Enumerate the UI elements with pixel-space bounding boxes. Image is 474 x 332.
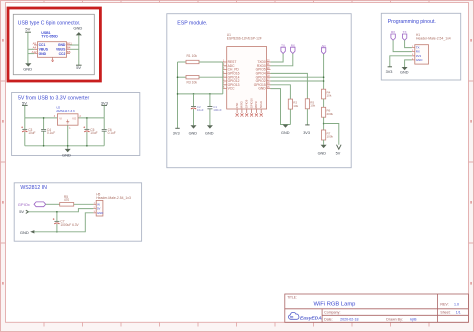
svg-text:USB type C 6pin connector.: USB type C 6pin connector. — [18, 20, 81, 26]
svg-text:200k: 200k — [327, 112, 334, 116]
frame ticks top — [44, 1, 429, 3]
svg-text:GND: GND — [318, 151, 327, 155]
resistor R6 200k — [322, 107, 326, 117]
wire gnd to header — [34, 213, 93, 232]
svg-text:ESP8266-12F/ESP-12F: ESP8266-12F/ESP-12F — [227, 37, 262, 41]
svg-text:GPIO9: GPIO9 — [245, 99, 249, 108]
regulator pin name GND — [66, 120, 69, 124]
svg-text:EasyEDA: EasyEDA — [300, 316, 322, 322]
ground GND under R7 — [321, 145, 327, 148]
power flag 5V esp — [337, 145, 342, 150]
svg-text:R1 10k: R1 10k — [187, 54, 198, 58]
wire ground rail — [25, 145, 104, 147]
svg-text:ESP module.: ESP module. — [177, 20, 207, 26]
power flag 3V3 prog — [388, 66, 392, 68]
svg-text:GND: GND — [205, 132, 214, 136]
wire vcc horizontal — [178, 93, 223, 95]
wire gpio2 to divider — [271, 80, 324, 82]
resistor R5 10k pullup — [305, 99, 309, 109]
svg-text:GND: GND — [73, 26, 82, 31]
capacitor C3 — [24, 118, 26, 146]
frame row letters — [470, 39, 472, 42]
svg-text:0.1uF: 0.1uF — [47, 131, 55, 135]
svg-text:1000uF 6.3V: 1000uF 6.3V — [60, 223, 79, 227]
wire 5V down — [24, 105, 26, 118]
programming section box — [381, 13, 460, 80]
junction dots esp left — [177, 76, 179, 78]
frame ticks bottom — [44, 322, 429, 326]
svg-text:GND: GND — [400, 71, 409, 75]
svg-text:1/1: 1/1 — [456, 311, 461, 315]
header pin stubs — [93, 204, 96, 213]
svg-text:Drawn By:: Drawn By: — [386, 318, 403, 322]
svg-text:3V3: 3V3 — [386, 70, 393, 74]
title block column divider rev/sheet — [437, 294, 439, 322]
svg-text:GND: GND — [20, 230, 29, 235]
svg-text:REV:: REV: — [440, 302, 448, 306]
pin stubs left — [34, 45, 37, 54]
chip left pin stubs — [223, 62, 227, 89]
svg-text:SCLK: SCLK — [259, 101, 263, 108]
capacitor C7 1000uF — [56, 212, 58, 232]
svg-text:5V: 5V — [336, 151, 341, 155]
svg-text:GND: GND — [281, 131, 290, 135]
svg-text:10k: 10k — [310, 104, 315, 108]
header H1 body — [415, 45, 429, 64]
svg-text:R3 10k: R3 10k — [187, 80, 198, 84]
svg-text:CS0: CS0 — [235, 102, 239, 108]
resistor R7 100k — [322, 130, 326, 140]
junction dots ws2812 — [56, 211, 58, 213]
svg-text:kjrB: kjrB — [410, 318, 417, 322]
svg-text:WiFi RGB Lamp: WiFi RGB Lamp — [314, 302, 356, 308]
svg-text:10uF: 10uF — [197, 108, 204, 112]
power flag 3V3 left rail — [175, 127, 179, 129]
svg-text:MOSI: MOSI — [254, 101, 258, 108]
wire output rail — [78, 117, 104, 119]
capacitor C5 — [86, 118, 88, 146]
svg-text:GPIO10: GPIO10 — [249, 98, 253, 109]
svg-text:3V3: 3V3 — [303, 131, 310, 135]
chip right pin stubs — [267, 62, 271, 89]
wire pin4 to gnd — [405, 60, 412, 67]
svg-text:5V: 5V — [76, 65, 81, 70]
ground GND prog — [402, 67, 408, 70]
svg-text:A12: A12 — [32, 50, 37, 54]
svg-text:GND: GND — [97, 211, 103, 215]
esp section box — [167, 14, 351, 168]
svg-text:Date:: Date: — [324, 318, 333, 322]
svg-text:10k: 10k — [327, 94, 332, 98]
chip bottom pin stubs — [237, 109, 261, 113]
svg-text:3V3: 3V3 — [173, 131, 180, 135]
power flag 5V bottom right — [76, 64, 82, 66]
usb connector U body — [38, 42, 67, 58]
wire right rail — [78, 35, 80, 65]
svg-text:5V from USB to 3.3V converter: 5V from USB to 3.3V converter — [18, 95, 89, 101]
svg-text:GND: GND — [189, 132, 198, 136]
ground GND under C1 — [207, 125, 213, 128]
header H1 pin stubs — [412, 48, 415, 60]
resistor R4 10k — [322, 89, 326, 99]
svg-text:MISO: MISO — [240, 100, 244, 108]
pin stubs right — [67, 45, 71, 54]
svg-text:5V: 5V — [22, 100, 27, 105]
svg-text:10k: 10k — [293, 104, 298, 108]
junction dot divider tap — [323, 123, 325, 125]
title block row divider 2 — [322, 314, 468, 316]
svg-text:GND: GND — [62, 152, 71, 157]
wire gpiox to resistor — [46, 203, 60, 205]
wire 3V3 rail left — [177, 62, 179, 128]
chip U1 body — [227, 47, 267, 109]
svg-text:5V: 5V — [25, 27, 30, 32]
EasyEDA logo cloud — [289, 312, 299, 319]
svg-text:GND: GND — [39, 52, 47, 56]
frame ticks left — [1, 81, 6, 243]
svg-text:GPIOx: GPIOx — [18, 202, 30, 207]
svg-text:GND: GND — [416, 58, 424, 62]
junction dots converter — [43, 117, 45, 119]
svg-text:Header-Male-2.54_1x3: Header-Male-2.54_1x3 — [96, 196, 131, 200]
svg-text:Company:: Company: — [324, 311, 340, 315]
regulator U2 body — [57, 114, 78, 125]
svg-text:10uF: 10uF — [90, 131, 97, 135]
svg-text:0.1uF: 0.1uF — [108, 131, 116, 135]
wire divider tap to 5V — [324, 124, 339, 145]
ground GND bottom left — [25, 63, 31, 66]
wire to GND pin A1 — [28, 53, 34, 55]
svg-text:WS2812 IN: WS2812 IN — [20, 185, 47, 191]
ground GND esp right — [283, 125, 289, 128]
wire tx flag to pin1 — [405, 40, 412, 47]
wire rx flag to pin2 — [393, 40, 412, 51]
ground GND converter — [65, 149, 71, 152]
svg-text:B5: B5 — [67, 50, 71, 54]
resistor R3 10k — [178, 76, 187, 78]
svg-text:VI: VI — [59, 116, 62, 120]
svg-text:TYC-050D: TYC-050D — [41, 35, 58, 39]
frame ticks right — [469, 81, 474, 243]
wire to GND pin B1 — [70, 44, 79, 46]
wire resistor to header — [74, 203, 94, 205]
svg-text:Header-Male-2.54_1x4: Header-Male-2.54_1x4 — [416, 37, 451, 41]
svg-text:Programming pinout.: Programming pinout. — [388, 19, 436, 25]
svg-text:2020-02-18: 2020-02-18 — [340, 318, 358, 322]
capacitor C6 — [103, 118, 105, 146]
junction dots divider — [323, 76, 325, 78]
wire rxd0 to rx flag — [271, 54, 293, 66]
svg-text:VCC: VCC — [228, 87, 236, 91]
sheet margin tint — [0, 0, 474, 3]
svg-text:10uF: 10uF — [28, 131, 35, 135]
shield pin stub — [52, 57, 54, 60]
svg-text:Sheet:: Sheet: — [440, 311, 450, 315]
wire divider vertical — [323, 54, 325, 89]
capacitor C2 10uF — [193, 94, 195, 125]
no-connect crosses bottom pins — [236, 114, 263, 117]
svg-text:470: 470 — [64, 198, 70, 202]
capacitor C1 100nF — [209, 94, 211, 125]
resistor R2 10k pulldown — [288, 99, 292, 109]
svg-text:1.0: 1.0 — [454, 302, 459, 306]
svg-text:3V3: 3V3 — [101, 100, 109, 105]
svg-text:TITLE:: TITLE: — [287, 295, 297, 299]
svg-text:100nF: 100nF — [213, 108, 222, 112]
wire vcc vertical — [222, 62, 224, 94]
ws2812 section box — [14, 183, 141, 241]
wire txd0 to tx flag — [271, 54, 284, 63]
wire to VBUS pin B4 — [70, 48, 79, 50]
power flag 3V3 under R5 — [305, 124, 309, 126]
wire input rail — [25, 117, 58, 119]
wire 5V to header — [28, 209, 93, 212]
wire 5V left rail — [27, 32, 29, 63]
ground GND under C2 — [191, 125, 197, 128]
wire gpio15 to R2 — [271, 85, 291, 99]
usb section box — [13, 14, 94, 74]
title block outline — [285, 294, 469, 322]
svg-text:GND: GND — [258, 87, 266, 91]
wire gpio0 to divider — [271, 76, 324, 78]
converter section box — [12, 93, 140, 156]
title block logo cell divider — [321, 309, 323, 323]
red highlight rectangle — [8, 8, 100, 81]
header H5 body — [96, 200, 103, 216]
wire 3V3 down — [103, 105, 105, 118]
wire chip gnd down — [271, 89, 291, 125]
wire to VBUS pin A4 — [28, 48, 34, 50]
svg-text:100k: 100k — [327, 135, 334, 139]
capacitor C4 — [43, 118, 45, 146]
svg-text:CC2: CC2 — [59, 52, 66, 56]
wire regulator gnd down — [67, 125, 69, 146]
svg-text:AMS1117-3.3: AMS1117-3.3 — [56, 109, 75, 113]
wire gpio4 to R5 pullup — [271, 73, 308, 98]
svg-text:5V: 5V — [19, 209, 24, 214]
svg-text:GND: GND — [23, 66, 32, 71]
title block row divider 1 — [285, 308, 469, 310]
wire pin3 to 3v3 — [390, 56, 412, 67]
